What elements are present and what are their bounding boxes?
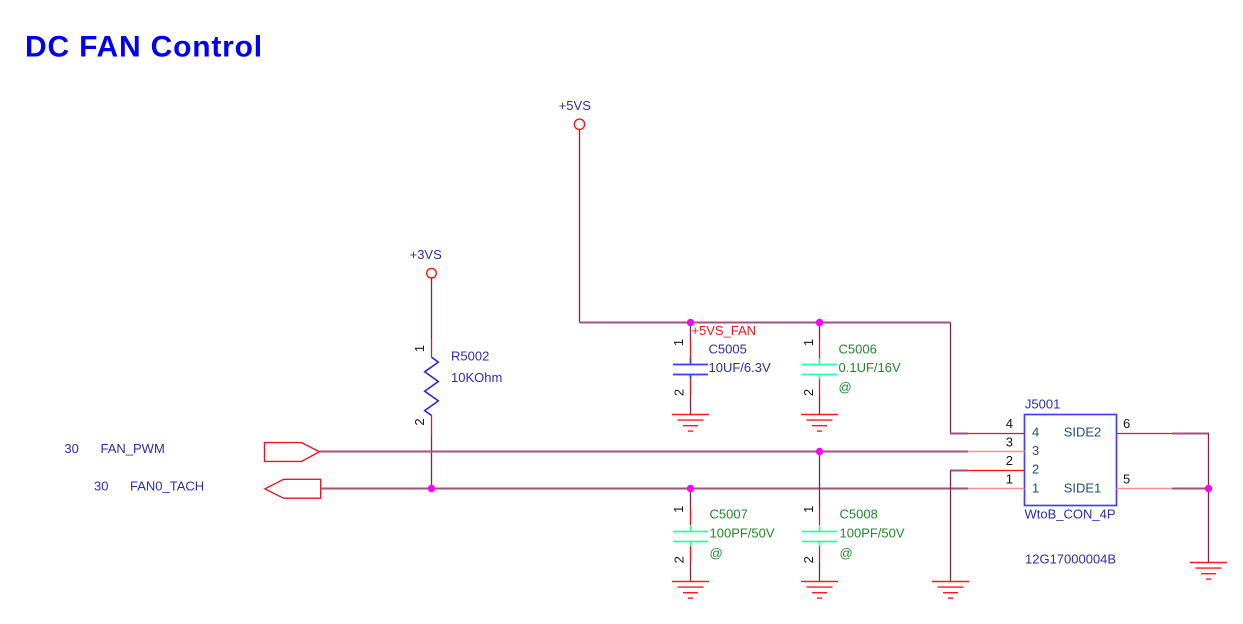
svg-text:30: 30 bbox=[64, 441, 78, 456]
svg-text:J5001: J5001 bbox=[1025, 397, 1060, 412]
connector J5001 pin 4 bbox=[968, 433, 1025, 435]
capacitor C5007 pin number 1 bbox=[671, 506, 686, 513]
svg-text:R5002: R5002 bbox=[451, 348, 489, 363]
connector J5001 refdes bbox=[1025, 397, 1060, 412]
capacitor C5006 pin 1 bbox=[819, 323, 821, 359]
svg-text:@: @ bbox=[839, 380, 852, 395]
power symbol +3VS circle bbox=[427, 268, 437, 278]
connector J5001 pin name 3 bbox=[1032, 443, 1039, 458]
capacitor C5007 refdes bbox=[710, 507, 748, 522]
wire pin2 to ground bbox=[950, 471, 968, 582]
ground under C5005 bbox=[672, 415, 709, 432]
resistor R5002 pin number 2 bbox=[412, 418, 427, 425]
svg-text:+5VS_FAN: +5VS_FAN bbox=[691, 323, 756, 338]
capacitor C5008 value2 bbox=[840, 546, 853, 561]
svg-text:1: 1 bbox=[412, 345, 427, 352]
svg-text:12G17000004B: 12G17000004B bbox=[1025, 552, 1116, 567]
wire FAN_PWM bbox=[320, 451, 969, 453]
svg-text:2: 2 bbox=[412, 418, 427, 425]
svg-text:10UF/6.3V: 10UF/6.3V bbox=[709, 360, 771, 375]
port FAN_PWM page ref 30 bbox=[64, 441, 78, 456]
connector J5001 label SIDE1 bbox=[1064, 480, 1102, 495]
connector J5001 part number bbox=[1025, 552, 1116, 567]
capacitor C5006 plates bbox=[802, 358, 837, 379]
capacitor C5008 pin 2 bbox=[819, 546, 821, 581]
capacitor C5006 pin number 2 bbox=[801, 389, 816, 396]
port FAN0_TACH page ref 30 bbox=[94, 478, 108, 493]
capacitor C5006 value bbox=[839, 360, 901, 375]
svg-text:1: 1 bbox=[1006, 472, 1013, 487]
capacitor C5007 value2 bbox=[710, 546, 723, 561]
title DC FAN Control bbox=[25, 31, 263, 64]
capacitor C5008 pin 1 bbox=[819, 452, 821, 526]
wire pin5 to right rail bbox=[1172, 488, 1209, 490]
connector J5001 part name bbox=[1025, 506, 1116, 521]
junction right rail pin5 bbox=[1205, 485, 1212, 492]
connector J5001 pin name 2 bbox=[1032, 462, 1039, 477]
svg-text:3: 3 bbox=[1006, 434, 1013, 449]
svg-text:2: 2 bbox=[671, 389, 686, 396]
capacitor C5006 pin number 1 bbox=[801, 339, 816, 346]
capacitor C5005 wire from rail bbox=[690, 323, 692, 339]
capacitor C5007 plates bbox=[673, 525, 708, 546]
resistor R5002 pin 2 bbox=[431, 415, 433, 435]
capacitor C5008 refdes bbox=[840, 507, 878, 522]
svg-text:1: 1 bbox=[801, 506, 816, 513]
port FAN_PWM name bbox=[101, 441, 165, 456]
junction rail C5005 bbox=[687, 319, 694, 326]
svg-text:+5VS: +5VS bbox=[559, 98, 591, 113]
port FAN_PWM arrow bbox=[265, 443, 320, 462]
capacitor C5008 value bbox=[840, 525, 905, 540]
connector J5001 pin number 6 bbox=[1123, 416, 1130, 431]
capacitor C5008 pin number 1 bbox=[801, 506, 816, 513]
ground right rail bbox=[1190, 563, 1227, 580]
capacitor C5007 pin number 2 bbox=[671, 556, 686, 563]
svg-text:3: 3 bbox=[1032, 443, 1039, 458]
svg-text:1: 1 bbox=[671, 506, 686, 513]
ground under C5008 bbox=[801, 582, 838, 599]
svg-text:C5008: C5008 bbox=[840, 507, 878, 522]
connector J5001 pin number 1 bbox=[1006, 472, 1013, 487]
svg-text:1: 1 bbox=[801, 339, 816, 346]
svg-text:6: 6 bbox=[1123, 416, 1130, 431]
connector J5001 pin 5 bbox=[1117, 488, 1173, 490]
svg-text:WtoB_CON_4P: WtoB_CON_4P bbox=[1025, 506, 1116, 521]
resistor R5002 refdes bbox=[451, 348, 489, 363]
svg-text:@: @ bbox=[710, 546, 723, 561]
wire resistor to FAN0_TACH bbox=[431, 436, 433, 489]
svg-text:C5007: C5007 bbox=[710, 507, 748, 522]
capacitor C5005 pin number 1 bbox=[671, 339, 686, 346]
connector J5001 pin number 5 bbox=[1123, 472, 1130, 487]
junction FAN0_TACH resistor bbox=[428, 485, 435, 492]
capacitor C5005 value bbox=[709, 360, 771, 375]
svg-text:SIDE2: SIDE2 bbox=[1064, 425, 1102, 440]
wire +5VS drop bbox=[579, 130, 581, 323]
capacitor C5008 pin number 2 bbox=[801, 556, 816, 563]
capacitor C5005 pin 2 bbox=[690, 379, 692, 395]
connector J5001 pin 1 bbox=[968, 488, 1025, 490]
svg-text:DC FAN Control: DC FAN Control bbox=[25, 31, 263, 64]
port FAN0_TACH arrow bbox=[265, 479, 321, 498]
svg-text:4: 4 bbox=[1006, 416, 1013, 431]
ground left of connector bbox=[932, 582, 969, 599]
svg-text:30: 30 bbox=[94, 478, 108, 493]
wire FAN0_TACH bbox=[321, 488, 968, 490]
resistor R5002 pin 1 bbox=[431, 340, 433, 358]
capacitor C5005 pin number 2 bbox=[671, 389, 686, 396]
svg-text:4: 4 bbox=[1032, 425, 1039, 440]
connector J5001 pin name 4 bbox=[1032, 425, 1039, 440]
net label +5VS_FAN bbox=[691, 323, 756, 338]
capacitor C5005 wire to ground bbox=[690, 396, 692, 415]
svg-text:+3VS: +3VS bbox=[410, 247, 442, 262]
svg-text:2: 2 bbox=[1032, 462, 1039, 477]
wire pin6 to right rail bbox=[1172, 434, 1209, 563]
svg-text:C5005: C5005 bbox=[709, 342, 747, 357]
ground under C5007 bbox=[672, 582, 709, 599]
svg-text:5: 5 bbox=[1123, 472, 1130, 487]
svg-text:2: 2 bbox=[671, 556, 686, 563]
svg-text:1: 1 bbox=[1032, 480, 1039, 495]
svg-text:FAN0_TACH: FAN0_TACH bbox=[130, 478, 204, 493]
connector J5001 pin number 2 bbox=[1006, 453, 1013, 468]
junction FAN0_TACH C5007 bbox=[687, 485, 694, 492]
wire rail drop to pin4 bbox=[950, 323, 968, 434]
wire +3VS drop bbox=[431, 278, 433, 340]
ground under C5006 bbox=[801, 415, 838, 432]
connector J5001 pin 3 bbox=[968, 451, 1025, 453]
capacitor C5007 pin 2 bbox=[690, 546, 692, 581]
capacitor C5005 pin 1 bbox=[690, 339, 692, 359]
svg-text:100PF/50V: 100PF/50V bbox=[840, 525, 905, 540]
capacitor C5007 value bbox=[710, 525, 775, 540]
svg-text:@: @ bbox=[840, 546, 853, 561]
svg-text:2: 2 bbox=[1006, 453, 1013, 468]
connector J5001 pin number 3 bbox=[1006, 434, 1013, 449]
svg-text:100PF/50V: 100PF/50V bbox=[710, 525, 775, 540]
svg-text:SIDE1: SIDE1 bbox=[1064, 480, 1102, 495]
capacitor C5005 plates bbox=[673, 358, 708, 379]
resistor R5002 value bbox=[451, 370, 502, 385]
svg-text:2: 2 bbox=[801, 389, 816, 396]
capacitor C5006 refdes bbox=[839, 342, 877, 357]
resistor R5002 body bbox=[425, 357, 439, 415]
connector J5001 pin name 1 bbox=[1032, 480, 1039, 495]
capacitor C5008 plates bbox=[802, 525, 837, 546]
svg-text:C5006: C5006 bbox=[839, 342, 877, 357]
power symbol +3VS label bbox=[410, 247, 442, 262]
connector J5001 body bbox=[1025, 415, 1117, 506]
resistor R5002 pin number 1 bbox=[412, 345, 427, 352]
capacitor C5006 value2 bbox=[839, 380, 852, 395]
power symbol +5VS circle bbox=[574, 119, 584, 129]
wire +5VS_FAN rail bbox=[580, 322, 951, 324]
svg-text:FAN_PWM: FAN_PWM bbox=[101, 441, 165, 456]
connector J5001 label SIDE2 bbox=[1064, 425, 1102, 440]
capacitor C5006 pin 2 bbox=[819, 379, 821, 414]
capacitor C5005 refdes bbox=[709, 342, 747, 357]
svg-text:10KOhm: 10KOhm bbox=[451, 370, 502, 385]
power symbol +5VS label bbox=[559, 98, 591, 113]
connector J5001 pin 6 bbox=[1117, 433, 1173, 435]
connector J5001 pin 2 bbox=[968, 470, 1025, 472]
junction rail C5006 bbox=[816, 319, 823, 326]
capacitor C5007 pin 1 bbox=[690, 489, 692, 526]
svg-text:0.1UF/16V: 0.1UF/16V bbox=[839, 360, 901, 375]
svg-text:2: 2 bbox=[801, 556, 816, 563]
port FAN0_TACH name bbox=[130, 478, 204, 493]
svg-text:1: 1 bbox=[671, 339, 686, 346]
connector J5001 pin number 4 bbox=[1006, 416, 1013, 431]
junction FAN_PWM C5008 bbox=[816, 448, 823, 455]
